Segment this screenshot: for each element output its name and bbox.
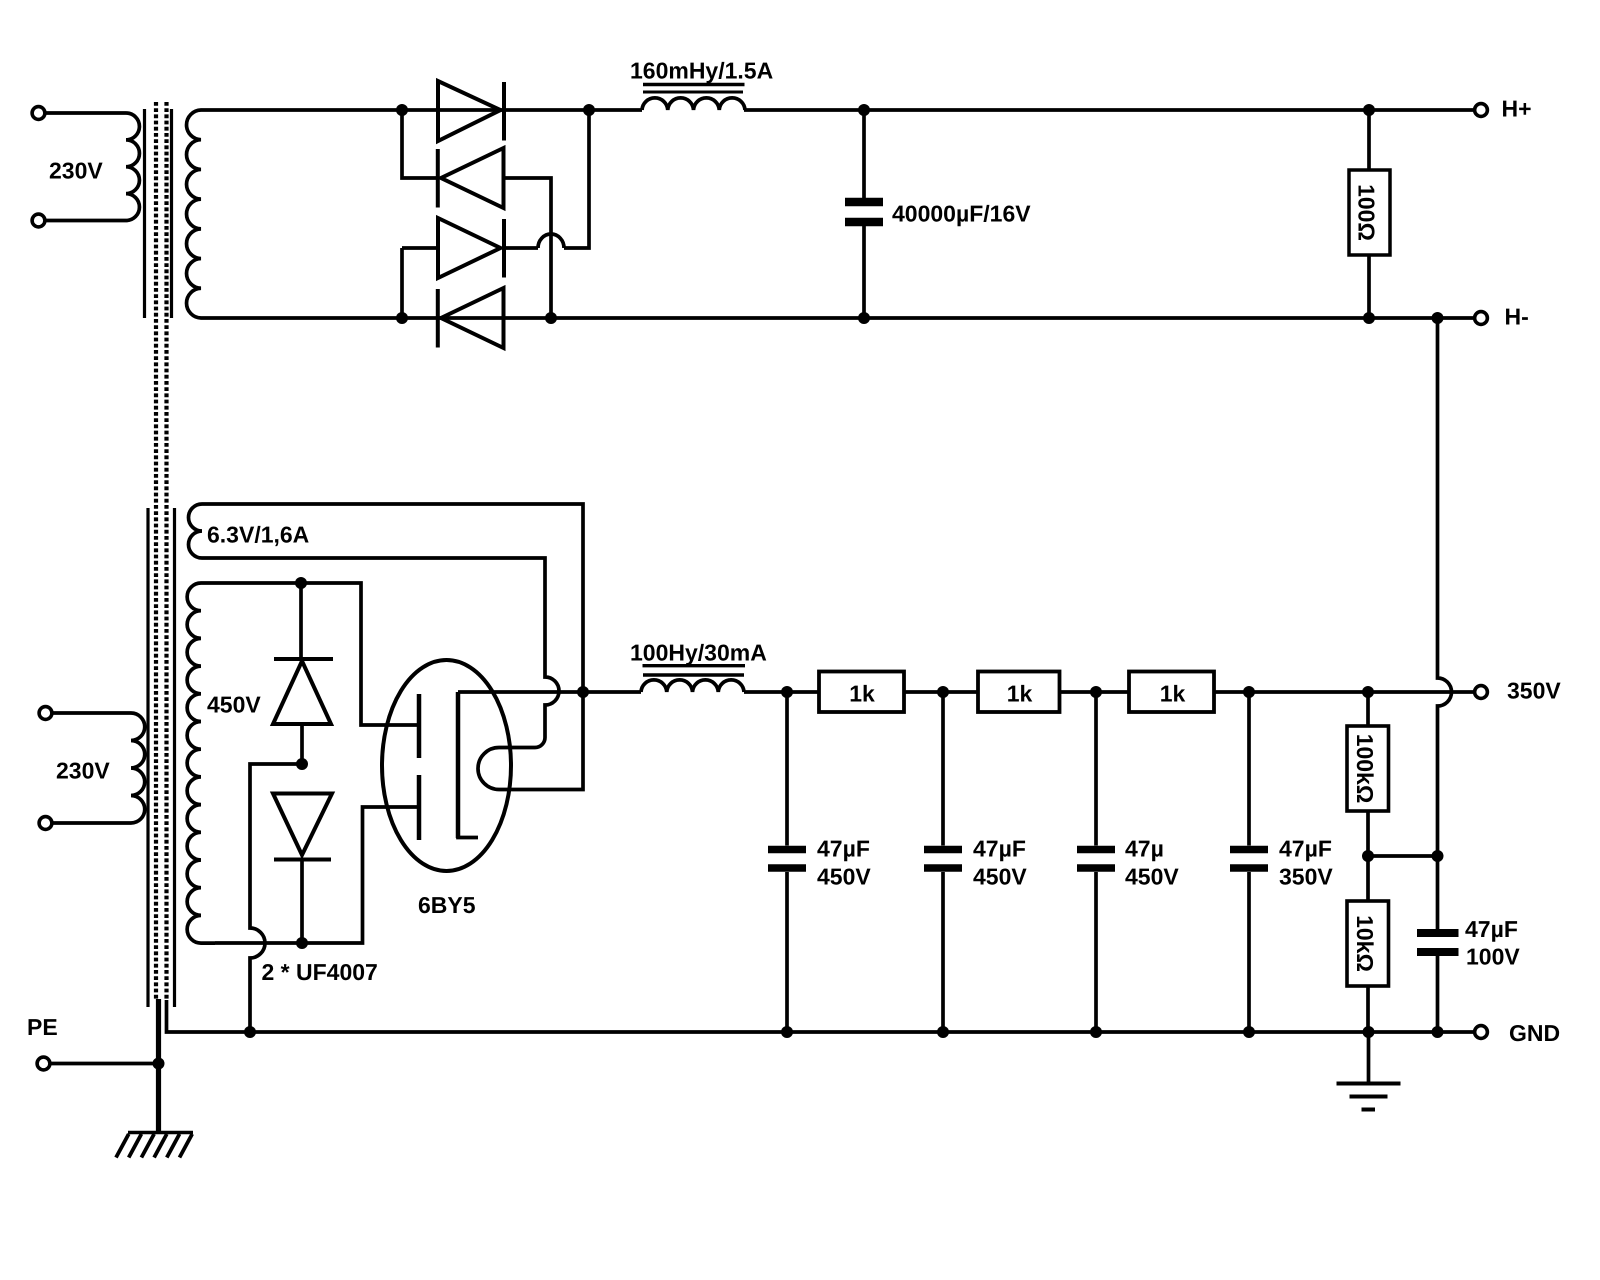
- svg-text:6.3V/1,6A: 6.3V/1,6A: [207, 522, 309, 548]
- svg-text:160mHy/1.5A: 160mHy/1.5A: [630, 58, 773, 84]
- svg-text:100kΩ: 100kΩ: [1352, 734, 1378, 804]
- svg-text:350V: 350V: [1507, 678, 1561, 704]
- svg-text:47µF: 47µF: [1279, 836, 1332, 862]
- svg-text:47µF: 47µF: [973, 836, 1026, 862]
- svg-text:6BY5: 6BY5: [418, 892, 476, 918]
- svg-text:450V: 450V: [207, 692, 261, 718]
- svg-text:230V: 230V: [49, 158, 103, 184]
- svg-text:H+: H+: [1502, 96, 1532, 122]
- svg-text:47µF: 47µF: [1465, 916, 1518, 942]
- svg-text:47µ: 47µ: [1125, 836, 1164, 862]
- svg-text:230V: 230V: [56, 758, 110, 784]
- svg-text:1k: 1k: [1160, 681, 1186, 707]
- svg-text:450V: 450V: [973, 864, 1027, 890]
- svg-text:1k: 1k: [849, 681, 875, 707]
- svg-text:100Ω: 100Ω: [1354, 184, 1380, 241]
- svg-text:450V: 450V: [817, 864, 871, 890]
- svg-text:450V: 450V: [1125, 864, 1179, 890]
- svg-text:100V: 100V: [1466, 944, 1520, 970]
- svg-text:H-: H-: [1505, 304, 1529, 330]
- svg-text:100Hy/30mA: 100Hy/30mA: [630, 640, 767, 666]
- svg-text:2 * UF4007: 2 * UF4007: [262, 959, 378, 985]
- svg-text:350V: 350V: [1279, 864, 1333, 890]
- svg-text:10kΩ: 10kΩ: [1352, 915, 1378, 972]
- svg-text:GND: GND: [1509, 1020, 1560, 1046]
- svg-text:40000µF/16V: 40000µF/16V: [892, 201, 1031, 227]
- svg-text:PE: PE: [27, 1014, 58, 1040]
- svg-text:47µF: 47µF: [817, 836, 870, 862]
- svg-text:1k: 1k: [1007, 681, 1033, 707]
